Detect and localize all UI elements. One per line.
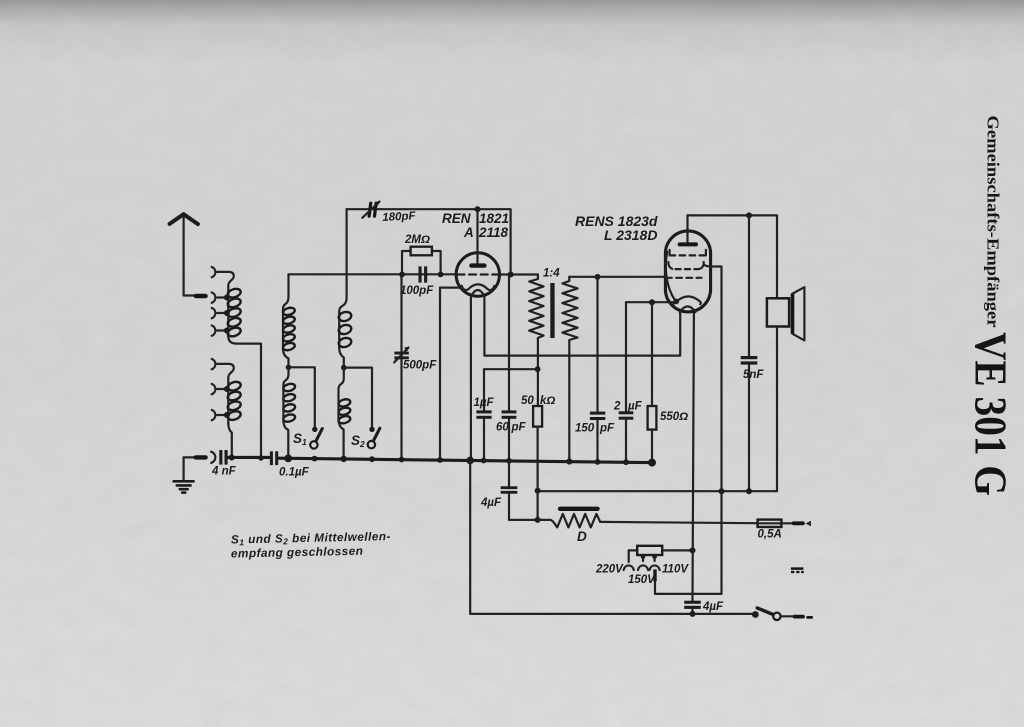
node mains switch contact: [752, 611, 759, 618]
svg-text:1:4: 1:4: [543, 268, 560, 280]
node heater branch / D: [535, 517, 541, 523]
svg-text:L 2318D: L 2318D: [604, 227, 657, 243]
capacitor 60pF: [502, 275, 517, 461]
svg-text:pF: pF: [511, 422, 527, 434]
node 1uF on bus: [481, 458, 487, 464]
svg-text:kΩ: kΩ: [540, 395, 555, 407]
svg-text:REN: REN: [442, 211, 471, 226]
label REN 1821 / A 2118: [442, 211, 509, 240]
resistor 2M ohm: [402, 247, 441, 275]
resistor 50k ohm: [533, 338, 542, 461]
capacitor 180pF variable: [362, 201, 380, 218]
chassis bus left segment: [228, 456, 270, 459]
svg-text:2: 2: [613, 401, 621, 413]
wire grid line: [289, 273, 457, 275]
svg-text:µF: µF: [627, 401, 643, 413]
RENS1823d control grid (dashed): [666, 277, 702, 279]
wire screen grid out to B+: [704, 265, 722, 492]
node L4 tap: [341, 365, 347, 371]
RENS1823d top cap: [680, 215, 696, 244]
chassis bus main: [278, 458, 652, 462]
wire mains bottom line: [470, 460, 755, 614]
triode REN1821 envelope: [456, 253, 499, 296]
wire D to fuse: [600, 522, 757, 523]
RF coil L4 lower winding: [338, 398, 351, 424]
wire 180pF riser to coil L4: [339, 209, 346, 348]
antenna coil L2 tap socket 5: [212, 384, 230, 394]
capacitor 2uF: [619, 302, 634, 462]
REN1821 filament arcs: [462, 284, 494, 296]
heater resistor D: [538, 509, 601, 528]
wire L2 bottom to 4nF node: [228, 423, 232, 457]
svg-text:150V: 150V: [628, 574, 656, 586]
REN1821 grid (dashed): [458, 273, 499, 275]
antenna coil L1 tap socket 4: [212, 325, 230, 335]
wire socket to coil L2 top: [217, 364, 234, 424]
svg-text:220V: 220V: [595, 564, 624, 576]
pentode RENS1823d envelope: [665, 231, 710, 312]
wire L4 mid: [339, 348, 344, 368]
node selector / RENS filament return: [690, 547, 696, 553]
node S2 top contact: [369, 427, 374, 432]
antenna coil L1 tap socket 1: [212, 267, 216, 277]
wire RENS filament leg right: [693, 312, 694, 601]
svg-text:60: 60: [496, 422, 509, 434]
wire L4 bottom to bus: [339, 368, 344, 459]
fuse 0.5A: [758, 520, 811, 527]
antenna coil L1 tap socket 2: [212, 292, 230, 302]
node S1 top contact: [312, 427, 317, 432]
wire tap to S2: [344, 368, 372, 429]
svg-text:VE 301 G: VE 301 G: [966, 332, 1016, 496]
node grid branch: [399, 272, 405, 278]
transformer core: [550, 283, 554, 338]
RENS1823d screen grid row: [668, 262, 703, 269]
node S1 on bus: [312, 456, 318, 462]
wire REN filament leg left: [470, 296, 472, 461]
node L3 bottom on bus: [284, 455, 292, 463]
svg-text:5nF: 5nF: [743, 369, 764, 381]
capacitor 1uF: [476, 410, 491, 460]
node B+ / heater branch: [535, 488, 541, 494]
svg-text:1µF: 1µF: [474, 397, 495, 409]
node cathode riser on bus: [437, 457, 443, 463]
wire speaker return (B+ line): [538, 327, 777, 492]
svg-text:empfang geschlossen: empfang geschlossen: [231, 544, 364, 561]
wire selector to mains node: [662, 549, 692, 551]
wire grid coil top riser: [283, 274, 289, 349]
wire REN filament leg right to RENS filament: [484, 296, 680, 356]
ground wire: [184, 456, 196, 458]
antenna coil L1 upper winding: [227, 287, 242, 338]
wire RENS cathode link: [626, 301, 674, 303]
label RENS 1823d / L 2318D: [575, 213, 658, 243]
antenna coil L2 top socket: [212, 359, 216, 369]
svg-text:2MΩ: 2MΩ: [404, 234, 430, 246]
switch S2: [368, 428, 380, 448]
node secondary bottom on bus: [566, 458, 572, 464]
antenna coil L2 winding: [227, 380, 242, 421]
node grid cap out: [438, 272, 444, 278]
node L1 riser on bus: [258, 455, 264, 461]
antenna coil L1 tap socket 3: [212, 308, 230, 318]
svg-text:50: 50: [521, 395, 534, 407]
mains switch: [757, 608, 811, 620]
capacitor 0.1uF (series in bus): [270, 451, 278, 465]
voltage selector block: [637, 546, 662, 555]
RENS1823d cathode structure: [666, 252, 701, 312]
RF coil L4 upper winding (S2 branch): [338, 311, 353, 349]
svg-text:pF: pF: [599, 423, 615, 435]
wire anode out: [499, 273, 538, 275]
wire REN cathode to ground riser: [440, 288, 461, 461]
wire RENS anode to speaker: [688, 215, 778, 298]
svg-text:A: A: [463, 225, 474, 240]
ground symbol: [174, 457, 194, 492]
wire L1 bottom step to riser: [228, 336, 261, 458]
node anode / 5nF: [746, 212, 752, 218]
svg-text:4 nF: 4 nF: [211, 466, 237, 478]
svg-text:550Ω: 550Ω: [660, 411, 688, 423]
node anode feedback top: [475, 206, 481, 212]
mains plug pin: [653, 569, 656, 581]
node 4uF second on mains line: [690, 611, 696, 617]
REN1821 anode top cap: [471, 209, 484, 265]
wire top (feedback line): [347, 209, 511, 274]
wire 1uF link: [484, 369, 538, 410]
antenna coil L2 tap socket 6: [212, 410, 230, 420]
switch S1: [310, 429, 322, 449]
svg-text:D: D: [577, 529, 587, 544]
capacitor 4uF (first): [501, 461, 538, 520]
resistor 550 ohm: [648, 302, 657, 462]
ground plug: [196, 455, 206, 459]
node B+ / 5nF bottom: [746, 488, 752, 494]
node 4nF / L2 bottom: [229, 455, 235, 461]
capacitor 500pF trimmer: [394, 274, 409, 459]
capacitor 5nF: [741, 215, 758, 491]
RENS1823d anode row (dashed with end ticks): [670, 250, 706, 256]
node cathode link / 550 ohm: [649, 299, 655, 305]
svg-text:0,5A: 0,5A: [758, 529, 782, 541]
RF coil L3 lower winding: [283, 383, 296, 423]
capacitor 4uF (second): [684, 601, 701, 614]
wire heater branch riser: [536, 461, 538, 520]
capacitor 4nF: [219, 450, 227, 465]
node 2uF on bus: [623, 459, 629, 465]
wire tap to S1: [289, 367, 315, 429]
svg-text:Gemeinschafts-Empfänger: Gemeinschafts-Empfänger: [984, 116, 1003, 328]
capacitor 4nF socket: [211, 452, 215, 463]
node 50k top / 1uF link: [535, 366, 541, 372]
node anode / feedback: [508, 272, 514, 278]
svg-text:4µF: 4µF: [702, 601, 724, 613]
node L4 bottom on bus: [341, 456, 347, 462]
wire secondary to RENS grid: [569, 276, 664, 278]
wire socket1 to coil top: [217, 272, 234, 337]
capacitor 150pF: [590, 277, 605, 462]
svg-text:180pF: 180pF: [382, 210, 417, 224]
wire selector to 220V contact: [629, 550, 638, 562]
svg-text:150: 150: [575, 423, 595, 435]
transformer secondary winding: [562, 277, 577, 462]
node 60pF on bus: [506, 458, 512, 464]
node 500pF on bus: [399, 457, 405, 463]
contact 150V: [638, 554, 648, 570]
DC symbol: [791, 569, 804, 572]
wire L3 bottom to bus: [283, 367, 288, 458]
node B+ / screen riser: [719, 488, 725, 494]
RF coil L3 upper winding (S1 branch): [282, 307, 295, 352]
transformer T primary winding: [529, 275, 543, 339]
svg-text:500pF: 500pF: [403, 360, 437, 372]
node 150pF on bus: [595, 459, 601, 465]
antenna plug: [196, 294, 206, 298]
wire plug to mains riser: [655, 491, 722, 594]
svg-text:2118: 2118: [478, 225, 509, 240]
contact 220V: [624, 565, 634, 570]
contact 110V: [650, 554, 660, 570]
node L3 tap: [286, 365, 292, 371]
node grid line / 150pF: [595, 274, 601, 280]
svg-text:1821: 1821: [479, 211, 509, 226]
svg-text:4µF: 4µF: [480, 497, 502, 509]
svg-text:110V: 110V: [662, 564, 689, 576]
svg-text:0.1µF: 0.1µF: [279, 467, 310, 479]
loudspeaker: [767, 287, 805, 340]
node filament leg on bus: [466, 457, 474, 465]
node S2 on bus: [369, 456, 375, 462]
capacitor 100pF: [419, 266, 428, 282]
node bus end: [648, 459, 656, 467]
svg-text:100pF: 100pF: [400, 285, 434, 297]
antenna: [170, 214, 198, 295]
wire L3 mid: [283, 349, 289, 367]
